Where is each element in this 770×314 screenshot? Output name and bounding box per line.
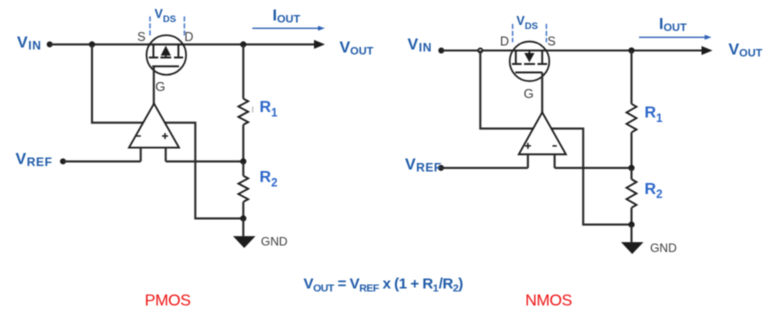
wire VIN to output arrow (right) [441, 49, 703, 51]
wire to ground symbol (right) [630, 225, 632, 243]
svg-text:VDS: VDS [155, 7, 177, 25]
Q2 body arrow stem top [528, 51, 530, 54]
resistor R1 (right) zigzag [627, 104, 637, 132]
node ground junction dot (right) [628, 222, 634, 228]
node A junction dot (left, VIN column) [89, 41, 95, 47]
svg-text:R1: R1 [260, 99, 279, 119]
svg-text:VOUT = VREF x (1 + R1/R2): VOUT = VREF x (1 + R1/R2) [304, 276, 464, 295]
ground symbol (right) [621, 242, 644, 254]
terminal dot VREF (left) [60, 158, 66, 164]
terminal dot VREF (right) [438, 165, 444, 171]
transistor Q2 NMOS body circle [510, 42, 550, 82]
U1 plus input marker [162, 133, 168, 139]
svg-text:VIN: VIN [408, 37, 432, 55]
Q2 source contact vertical [541, 51, 543, 64]
Q1 gate plate line [152, 65, 179, 67]
op-amp U2 triangle [519, 112, 566, 154]
transistor Q1 PMOS body circle [147, 35, 187, 75]
wire divider node to R2 [242, 161, 244, 175]
svg-text:NMOS: NMOS [525, 293, 572, 310]
node divider junction dot (right) [628, 165, 634, 171]
wire op-amp V+ supply from node C [480, 51, 533, 129]
op-amp U1 triangle [129, 104, 179, 148]
node C hollow junction (right, VIN column) [478, 48, 482, 52]
svg-text:VREF: VREF [16, 151, 53, 169]
svg-text:R1: R1 [645, 105, 664, 125]
wire op-amp V- supply to ground rail [165, 123, 244, 219]
Q2 gate plate line [515, 71, 542, 73]
Q2 source contact bar [538, 63, 548, 65]
svg-text:IOUT: IOUT [273, 7, 301, 25]
wire divider node to R2 (right) [630, 168, 632, 179]
wire R2 to ground node (right) [630, 208, 632, 225]
svg-text:PMOS: PMOS [145, 293, 191, 310]
VDS dashed probe line left (right ckt) [512, 24, 514, 42]
node ground junction dot (left) [240, 215, 246, 221]
svg-text:R2: R2 [645, 181, 663, 201]
svg-text:IOUT: IOUT [659, 16, 687, 34]
svg-text:R2: R2 [260, 169, 278, 189]
wire Q1 gate to op-amp output [153, 66, 155, 104]
node D junction dot (right, R1 top) [628, 47, 634, 53]
terminal dot VIN (right) [438, 48, 444, 54]
wire R1 to divider node (right) [630, 132, 632, 168]
node B junction dot (left, R1 top) [240, 41, 246, 47]
arrowhead VOUT (left) [314, 40, 325, 49]
U2 non-inverting input pin [527, 154, 529, 168]
resistor R2 (left) zigzag [238, 176, 248, 202]
wire op-amp V- supply to ground rail (right) [551, 129, 632, 225]
wire R1 to divider node [242, 125, 244, 162]
Q2 drain contact bar [512, 63, 522, 65]
wire feedback inverting input to divider node (right) [555, 167, 632, 169]
svg-text:GND: GND [261, 235, 288, 249]
svg-text:GND: GND [650, 241, 677, 255]
ground symbol (left) [233, 236, 256, 248]
svg-text:D: D [500, 35, 509, 49]
wire op-amp V+ supply from node A [92, 44, 144, 122]
wire VOUT node to R1 [242, 44, 244, 98]
Q1 body arrow stem [165, 56, 167, 58]
svg-text:G: G [155, 79, 165, 94]
terminal dot VIN (left) [47, 41, 53, 47]
arrowhead VOUT (right) [702, 46, 713, 55]
Q1 source contact bar [149, 57, 158, 59]
Q1 drain contact vertical [177, 44, 179, 56]
current arrow IOUT (left) [252, 27, 319, 29]
Q2 body contact bar [524, 63, 535, 65]
U1 non-inverting input pin [165, 148, 167, 162]
svg-text:D: D [184, 30, 193, 44]
VDS dashed probe line left [149, 16, 151, 35]
U2 minus input marker [553, 145, 557, 147]
U2 plus input marker [525, 143, 531, 149]
U1 minus input marker [137, 135, 141, 137]
svg-text:VOUT: VOUT [340, 40, 374, 58]
wire VOUT node to R1 (right) [630, 51, 632, 104]
Q1 drain contact bar [174, 57, 183, 59]
wire VIN to output arrow [50, 43, 316, 45]
Q1 body arrow (points up) [161, 46, 171, 56]
svg-text:VREF: VREF [405, 156, 442, 174]
U1 inverting input pin [140, 148, 142, 162]
wire feedback non-inverting input to divider node [166, 160, 244, 162]
Q1 body contact bar [160, 57, 171, 59]
Q2 body arrow (points down) [524, 53, 534, 62]
VDS dashed probe line right [183, 16, 185, 35]
svg-text:VIN: VIN [17, 35, 41, 53]
faint tick beside R1 [252, 107, 254, 113]
wire VREF to inverting input [63, 160, 141, 162]
svg-text:VDS: VDS [516, 14, 538, 32]
wire VREF to non-inverting input (right) [441, 167, 528, 169]
current arrow IOUT (right) [639, 36, 706, 38]
VDS dashed probe line right (right ckt) [545, 24, 547, 42]
node divider junction dot (left) [240, 158, 246, 164]
Q2 drain contact vertical [515, 51, 517, 64]
wire Q2 gate to op-amp output [541, 72, 543, 112]
Q1 source contact vertical [152, 44, 154, 56]
svg-text:S: S [137, 30, 145, 44]
wire to ground symbol [242, 218, 244, 236]
svg-text:G: G [524, 86, 534, 101]
U2 inverting input pin [554, 154, 556, 168]
svg-text:S: S [547, 35, 555, 49]
resistor R2 (right) zigzag [627, 179, 637, 208]
wire R2 to ground node [242, 202, 244, 219]
resistor R1 (left) zigzag [238, 99, 248, 125]
svg-text:VOUT: VOUT [729, 41, 763, 59]
